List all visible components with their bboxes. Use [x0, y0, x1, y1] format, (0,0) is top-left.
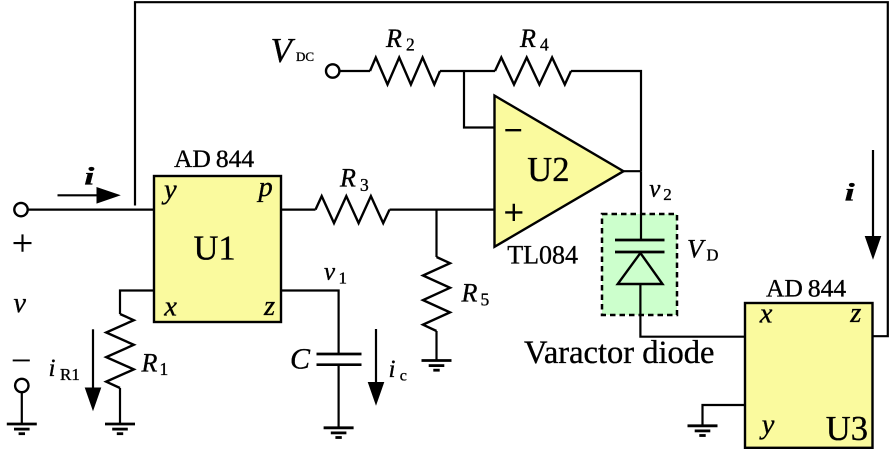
svg-text:R: R [339, 164, 356, 193]
varactor green dashed box [602, 214, 677, 315]
label v1 [324, 259, 347, 288]
svg-text:y: y [161, 175, 177, 206]
wire C to ground [338, 365, 340, 428]
svg-text:z: z [263, 291, 275, 322]
wire feedback top: from node above U1 y pin, across top, down right edge to U3 z [135, 2, 888, 336]
wire node to R5 [435, 210, 437, 257]
svg-text:x: x [759, 299, 773, 330]
resistor R4 [495, 58, 571, 85]
wire U1 z pin to v1 node and down to C [281, 291, 339, 355]
varactor diode D [615, 240, 665, 284]
capacitor C [317, 354, 362, 365]
terminal bottom [15, 379, 28, 392]
svg-text:R: R [385, 24, 402, 53]
wire terminal to ground [21, 392, 23, 424]
arrow i_R1 [85, 329, 102, 411]
svg-text:v: v [649, 176, 661, 203]
wire U1 p to R3 [281, 209, 316, 211]
label V_DC [271, 31, 315, 70]
label i_R1 [49, 355, 80, 384]
svg-text:DC: DC [296, 49, 314, 64]
label R4 [519, 24, 549, 55]
svg-text:R: R [461, 279, 478, 308]
svg-text:AD 844: AD 844 [174, 144, 254, 173]
svg-text:TL084: TL084 [507, 241, 578, 270]
wire R4 to output node [571, 71, 641, 171]
IC U3 [745, 298, 873, 448]
resistor R1 [106, 314, 134, 388]
wire U3 y pin to ground [703, 405, 746, 426]
wire R1 to ground [119, 388, 121, 424]
svg-text:5: 5 [481, 289, 490, 309]
svg-text:c: c [400, 367, 407, 384]
svg-text:C: C [290, 343, 311, 376]
svg-text:p: p [257, 172, 273, 203]
wire varactor down through box [640, 284, 745, 337]
svg-text:R: R [141, 348, 158, 377]
op-amp U2 [495, 96, 624, 247]
svg-text:2: 2 [406, 34, 415, 54]
svg-text:v: v [14, 288, 27, 319]
svg-text:i: i [84, 162, 94, 190]
svg-text:1: 1 [339, 269, 348, 288]
arrow i_c [368, 329, 385, 406]
resistor R5 [423, 257, 450, 331]
svg-text:U3: U3 [826, 410, 868, 448]
svg-text:z: z [849, 298, 861, 329]
label i (right) [845, 178, 855, 206]
terminal input + [14, 203, 27, 216]
svg-text:V: V [687, 234, 706, 264]
label i (input) [84, 162, 94, 190]
svg-text:y: y [759, 410, 775, 441]
svg-text:4: 4 [540, 34, 549, 54]
svg-text:i: i [389, 356, 396, 383]
svg-text:x: x [163, 292, 177, 323]
arrow i (input current) [58, 187, 121, 204]
label R5 [461, 279, 490, 310]
ground (U3 y) [688, 426, 718, 436]
svg-text:R1: R1 [60, 365, 80, 384]
ground (C) [324, 428, 354, 438]
svg-text:Varactor diode: Varactor diode [524, 335, 714, 371]
wire R5 to ground [435, 331, 437, 361]
svg-text:i: i [49, 355, 56, 382]
wire R3 to op-amp + input [390, 209, 495, 211]
resistor R2 [370, 58, 440, 85]
wire U1 x pin to R1 [120, 291, 154, 315]
svg-text:3: 3 [360, 175, 369, 195]
label V_D [687, 234, 719, 265]
svg-text:i: i [845, 178, 855, 206]
resistor R3 [316, 196, 390, 223]
label R2 [385, 24, 415, 55]
svg-text:D: D [707, 245, 719, 264]
wire node down to op-amp minus input [464, 71, 495, 128]
ground (R1) [105, 424, 135, 434]
svg-text:V: V [271, 31, 296, 70]
wire input to U1 y pin [27, 209, 154, 211]
svg-text:U2: U2 [527, 151, 569, 189]
svg-text:v: v [324, 259, 336, 286]
label i_c [389, 356, 407, 384]
label R3 [339, 164, 369, 195]
label v2 [649, 176, 672, 205]
label R1 [141, 348, 169, 379]
svg-text:1: 1 [160, 359, 169, 379]
label minus [13, 359, 30, 361]
svg-text:2: 2 [663, 185, 672, 204]
wire V_DC to R2 [339, 70, 370, 72]
IC U1 [154, 172, 281, 323]
ground (R5) [422, 361, 452, 371]
svg-text:R: R [519, 24, 536, 53]
ground (bottom terminal) [7, 424, 37, 434]
wire R2 to node and R4 [440, 70, 495, 72]
svg-text:U1: U1 [194, 230, 236, 268]
wire op-amp output to node [624, 170, 642, 172]
terminal V_DC [326, 64, 339, 77]
label plus [14, 234, 32, 251]
wire output node down to varactor [640, 171, 642, 240]
arrow i (right, output current) [865, 150, 882, 260]
svg-text:AD 844: AD 844 [766, 274, 846, 303]
